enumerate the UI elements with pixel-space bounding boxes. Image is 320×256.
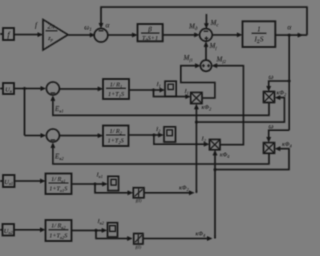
wire triangle to summer 1 <box>68 33 95 38</box>
wire block R1 to limiter L1 <box>129 88 165 93</box>
svg-text:2π: 2π <box>47 22 55 30</box>
svg-text:κΦ4: κΦ4 <box>220 153 230 160</box>
node junction omega tap lower <box>266 130 289 142</box>
svg-text:f(I): f(I) <box>136 198 142 203</box>
wire block Rv1 to limiter L3 <box>72 182 108 187</box>
node junction I1 <box>152 89 155 92</box>
svg-text:β: β <box>147 26 152 34</box>
wire X4 output E_ya2 feedback <box>51 142 270 164</box>
svg-text:κΦ4: κΦ4 <box>196 232 206 239</box>
wire omega tap to multiplier X3 <box>266 81 289 92</box>
node junction I2 <box>152 134 155 137</box>
node junction alpha branch <box>288 34 291 37</box>
wire inertia block to alpha output <box>275 33 307 38</box>
wire X3 output E_ya1 feedback <box>51 95 270 115</box>
wire torque summer to inertia block <box>212 33 242 38</box>
input M_c stub <box>204 14 209 29</box>
wire kPhi4 bus to X4 right input <box>215 146 289 169</box>
input box f <box>0 28 14 40</box>
wire f to gain triangle <box>14 32 43 37</box>
wire summer1 to beta block <box>108 33 138 38</box>
input box U_v2 <box>0 224 14 236</box>
indicator L4 <box>108 223 118 237</box>
indicator L2 <box>164 127 176 142</box>
saturation block f(I) 1 <box>133 188 144 203</box>
wire flux kPhi2 riser into X1 <box>194 104 199 193</box>
feedback wire alpha top bus <box>99 7 307 35</box>
wire flux kPhi4 riser into X2 <box>213 150 218 239</box>
multiplier X4 <box>264 143 275 154</box>
indicator L3 <box>108 176 119 190</box>
svg-text:κΦ2: κΦ2 <box>277 91 287 98</box>
wire U_ya to summer 2 <box>14 86 46 91</box>
block 1/R1/(1+T1S) <box>103 79 129 99</box>
wire I_v1 bypass to saturation 1 <box>95 184 133 195</box>
wire branch down to row 3 <box>24 89 26 136</box>
node junction kPhi2 <box>195 121 198 124</box>
multiplier X2 <box>210 139 221 149</box>
multiplier X3 <box>264 92 275 103</box>
wire beta block to torque summer <box>163 33 200 38</box>
node junction I_v2 <box>95 229 98 232</box>
wire summer2 to block R1 <box>59 87 103 92</box>
svg-text:1+Tв1S: 1+Tв1S <box>49 186 67 194</box>
wire alpha branch down <box>288 35 290 130</box>
wire I2 bypass to X2 <box>154 135 209 147</box>
wire kPhi2 bus to X3 right input <box>196 95 284 122</box>
multiplier X1 <box>191 92 202 103</box>
svg-text:κΦ4: κΦ4 <box>282 142 292 149</box>
wire X1 output M_f1 <box>181 63 215 98</box>
svg-text:1: 1 <box>257 26 261 34</box>
svg-text:TдS+1: TдS+1 <box>142 35 158 42</box>
block 1/Rv2/(1+Tv2S) <box>46 220 72 241</box>
svg-text:ω: ω <box>269 122 274 130</box>
block 1/(J S) <box>243 21 276 47</box>
wire X2 output M_f2 <box>212 63 244 144</box>
svg-text:zp: zp <box>47 35 54 42</box>
svg-text:Uв1: Uв1 <box>4 179 13 186</box>
block 1/Rv1/(1+Tv1S) <box>46 174 72 195</box>
wire flux 2 output <box>143 236 215 241</box>
node junction I_v1 <box>94 183 97 186</box>
node junction kPhi4 <box>214 168 217 171</box>
input box U_v1 <box>0 175 15 187</box>
svg-text:1+Tв2S: 1+Tв2S <box>49 233 67 241</box>
friction summing junction <box>200 60 211 71</box>
wire summer4 to block R2 <box>59 133 103 138</box>
svg-text:Uя: Uя <box>5 87 12 94</box>
wire block Rv2 to limiter L4 <box>72 228 108 233</box>
block beta/(TdS+1) <box>138 24 163 42</box>
wire branch to summer armature 2 <box>25 133 47 138</box>
input box U_ya <box>0 83 14 94</box>
wire I1 bypass to X1 <box>154 90 191 99</box>
summing junction armature 2 <box>46 129 59 142</box>
svg-text:κΦ2: κΦ2 <box>202 105 212 112</box>
summing junction 1 (speed error) <box>94 28 108 42</box>
indicator L1 <box>165 81 176 96</box>
svg-text:Uв2: Uв2 <box>4 228 14 235</box>
block 1/R2/(1+T2S) <box>103 126 129 147</box>
saturation block f(I) 2 <box>134 234 143 250</box>
torque summing junction <box>200 29 213 42</box>
svg-text:f(I): f(I) <box>135 244 141 249</box>
gain triangle 2pi/zp <box>43 20 68 51</box>
wire friction sum to torque summer M_sum <box>204 41 209 60</box>
wire flux 1 output <box>144 190 196 195</box>
wire I_v2 bypass to saturation 2 <box>96 230 133 241</box>
svg-text:1+T1S: 1+T1S <box>108 91 124 99</box>
svg-text:κΦ2: κΦ2 <box>179 186 189 193</box>
svg-text:ω: ω <box>269 73 274 81</box>
node junction omega tap upper <box>288 80 291 83</box>
node junction U_ya branch <box>23 87 26 90</box>
wire U_v2 to block Rv2 <box>14 227 46 232</box>
svg-text:1+T2S: 1+T2S <box>108 138 124 146</box>
summing junction armature 1 <box>46 82 59 95</box>
wire block R2 to limiter L2 <box>129 133 164 138</box>
wire U_v1 to block Rv1 <box>15 179 46 184</box>
